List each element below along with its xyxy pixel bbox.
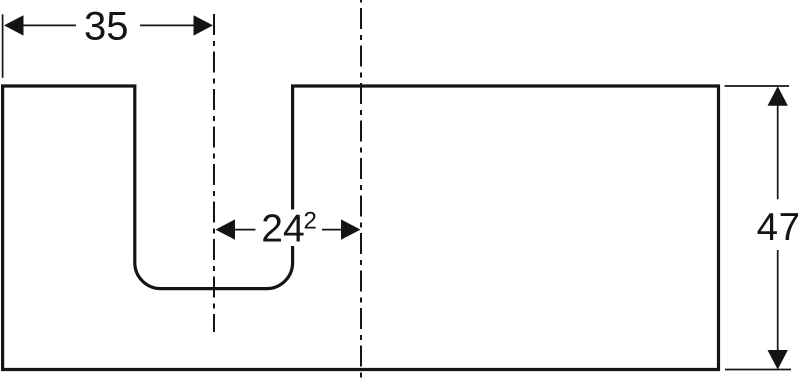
arrowhead 47 bottom: [768, 350, 788, 370]
countertop outline with U-shaped cutout: [3, 86, 719, 370]
dimension line 47 upper segment: [777, 105, 779, 199]
arrowhead 47 top: [768, 86, 788, 106]
svg-text:35: 35: [84, 5, 129, 49]
dimension line 35 left segment: [23, 24, 77, 26]
dimension line 24 right segment: [322, 229, 342, 231]
svg-text:24: 24: [261, 208, 304, 251]
dimension line 35 right segment: [140, 24, 195, 26]
extension line bottom right (for 47): [725, 369, 791, 371]
arrowhead 24 left: [216, 219, 236, 239]
white mask behind 24 label: [256, 210, 321, 247]
svg-text:47: 47: [757, 206, 799, 249]
arrowhead 35 right: [194, 15, 214, 35]
svg-text:2: 2: [304, 208, 317, 235]
arrowhead 35 left: [4, 15, 24, 35]
centerline of basin (dash-dot): [360, 0, 362, 381]
dimension line 24 left segment: [235, 229, 256, 231]
dimension line 47 lower segment: [777, 250, 779, 351]
extension line top right (for 47): [725, 85, 790, 87]
extension line left (for 35): [2, 14, 4, 78]
arrowhead 24 right: [341, 219, 361, 239]
centerline of cutout (dash-dot): [213, 14, 215, 332]
